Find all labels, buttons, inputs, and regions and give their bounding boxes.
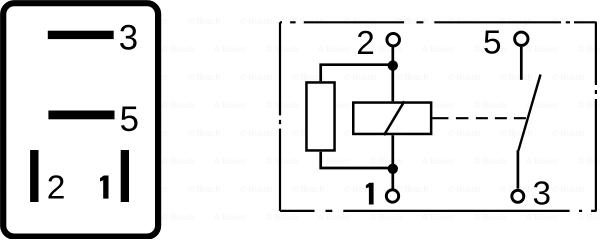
svg-text:© Bosch: © Bosch	[318, 156, 351, 166]
svg-text:© Bosch: © Bosch	[266, 44, 299, 54]
svg-text:© Bosch: © Bosch	[162, 212, 195, 222]
svg-text:© Bosch: © Bosch	[526, 156, 559, 166]
svg-text:© Bosch: © Bosch	[370, 156, 403, 166]
svg-text:© Bosch: © Bosch	[318, 44, 351, 54]
svg-text:© Bosch: © Bosch	[188, 184, 221, 194]
svg-text:© Bosch: © Bosch	[240, 184, 273, 194]
svg-text:© Bosch: © Bosch	[214, 156, 247, 166]
svg-text:© Bosch: © Bosch	[396, 72, 429, 82]
svg-text:© Bosch: © Bosch	[162, 100, 195, 110]
svg-text:© Bosch: © Bosch	[266, 212, 299, 222]
svg-text:© Bosch: © Bosch	[162, 44, 195, 54]
svg-text:© Bosch: © Bosch	[552, 184, 585, 194]
svg-text:© Bosch: © Bosch	[318, 212, 351, 222]
svg-text:© Bosch: © Bosch	[266, 100, 299, 110]
svg-text:© Bosch: © Bosch	[552, 72, 585, 82]
svg-text:© Bosch: © Bosch	[422, 44, 455, 54]
svg-text:© Bosch: © Bosch	[474, 156, 507, 166]
svg-text:© Bosch: © Bosch	[370, 212, 403, 222]
svg-text:© Bosch: © Bosch	[500, 72, 533, 82]
svg-text:© Bosch: © Bosch	[214, 212, 247, 222]
svg-text:2: 2	[47, 170, 66, 207]
svg-text:© Bosch: © Bosch	[526, 44, 559, 54]
svg-text:© Bosch: © Bosch	[188, 72, 221, 82]
svg-text:© Bosch: © Bosch	[188, 128, 221, 138]
svg-text:© Bosch: © Bosch	[578, 212, 600, 222]
svg-text:© Bosch: © Bosch	[422, 156, 455, 166]
svg-text:© Bosch: © Bosch	[552, 16, 585, 26]
svg-text:© Bosch: © Bosch	[344, 72, 377, 82]
svg-text:© Bosch: © Bosch	[292, 184, 325, 194]
svg-text:© Bosch: © Bosch	[214, 44, 247, 54]
svg-text:© Bosch: © Bosch	[552, 128, 585, 138]
svg-text:© Bosch: © Bosch	[500, 128, 533, 138]
svg-text:© Bosch: © Bosch	[214, 100, 247, 110]
svg-text:© Bosch: © Bosch	[188, 16, 221, 26]
svg-text:© Bosch: © Bosch	[240, 72, 273, 82]
svg-text:© Bosch: © Bosch	[240, 16, 273, 26]
svg-text:© Bosch: © Bosch	[396, 184, 429, 194]
svg-text:© Bosch: © Bosch	[162, 156, 195, 166]
svg-text:© Bosch: © Bosch	[474, 212, 507, 222]
svg-text:© Bosch: © Bosch	[500, 16, 533, 26]
svg-text:5: 5	[120, 100, 139, 139]
svg-text:© Bosch: © Bosch	[266, 156, 299, 166]
svg-text:© Bosch: © Bosch	[448, 128, 481, 138]
svg-text:© Bosch: © Bosch	[422, 212, 455, 222]
svg-text:© Bosch: © Bosch	[448, 184, 481, 194]
svg-text:5: 5	[483, 24, 502, 61]
svg-text:3: 3	[533, 175, 552, 212]
svg-text:© Bosch: © Bosch	[526, 212, 559, 222]
svg-text:© Bosch: © Bosch	[396, 16, 429, 26]
svg-text:© Bosch: © Bosch	[448, 16, 481, 26]
svg-text:© Bosch: © Bosch	[292, 16, 325, 26]
svg-text:3: 3	[119, 18, 138, 57]
svg-text:© Bosch: © Bosch	[474, 100, 507, 110]
svg-text:© Bosch: © Bosch	[448, 72, 481, 82]
svg-text:© Bosch: © Bosch	[240, 128, 273, 138]
svg-text:2: 2	[356, 25, 375, 62]
